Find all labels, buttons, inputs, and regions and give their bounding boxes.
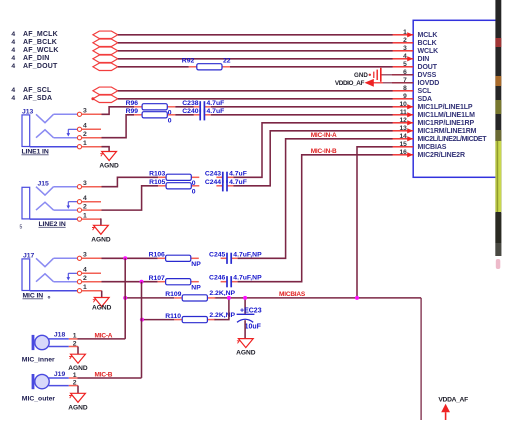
off-page connector AF_MCLK [11, 31, 117, 38]
ground GND at DVSS pin 6 [354, 68, 413, 82]
svg-text:J15: J15 [38, 181, 50, 188]
svg-text:10uF: 10uF [245, 324, 262, 331]
pin 5 DOUT [392, 61, 438, 71]
pin 1 of J15 [77, 213, 87, 222]
wire J17 pin 2 to R107 [82, 281, 102, 283]
wire net MIC-A vertical [124, 258, 126, 339]
svg-text:AF_SCL: AF_SCL [23, 87, 52, 94]
off-page connector AF_DIN [11, 55, 117, 62]
svg-text:MIC1LP/LINE1LP: MIC1LP/LINE1LP [418, 104, 473, 111]
svg-text:J17: J17 [23, 252, 35, 259]
svg-text:C244: C244 [205, 179, 221, 186]
capacitor C244 [205, 179, 247, 192]
pin 3 of J15 [77, 180, 87, 189]
pin 2 of J17 [77, 275, 87, 284]
power VDDA_AF [438, 397, 468, 420]
svg-text:R110: R110 [165, 313, 181, 320]
resistor R103 [149, 171, 199, 188]
svg-text:IOVDD: IOVDD [418, 80, 440, 87]
svg-text:MIC2R/LINE2R: MIC2R/LINE2R [418, 152, 465, 159]
svg-text:DOUT: DOUT [418, 64, 438, 71]
svg-text:NP: NP [191, 261, 201, 268]
svg-text:MIC1RM/LINE1RM: MIC1RM/LINE1RM [418, 128, 477, 135]
wire C243 to pin 12 [233, 123, 392, 178]
svg-text:AGND: AGND [68, 365, 88, 372]
svg-text:BCLK: BCLK [418, 40, 437, 47]
ground AGND of J15 [91, 225, 111, 243]
junction dot at AF_SDA connector [91, 97, 94, 100]
pin 7 IOVDD [392, 77, 439, 87]
svg-text:AGND: AGND [68, 404, 88, 411]
svg-text:DVSS: DVSS [418, 72, 437, 79]
ground AGND of EC23 [236, 339, 256, 357]
svg-text:MIC-IN-A: MIC-IN-A [311, 132, 337, 139]
pin 13 MIC1RM/LINE1RM [392, 125, 477, 135]
pin 4 DIN [392, 53, 429, 63]
wire net MIC-B vertical [141, 282, 143, 378]
resistor R105 [149, 179, 199, 196]
wire C244 to pin 13 [233, 131, 392, 186]
junction at J17 pin 3 and MIC-A [123, 256, 127, 260]
connector J13 LINE1 IN jack [22, 108, 77, 146]
ground AGND of J18 [68, 354, 88, 372]
svg-text:GND: GND [354, 72, 368, 79]
off-page connector AF_SCL [11, 87, 117, 94]
wire R99 to C240 [175, 114, 194, 116]
wire J19 pin 2 to ground [69, 385, 78, 387]
pin 4 of J13 [77, 123, 101, 132]
pin 16 MIC2R/LINE2R [392, 149, 465, 159]
pin 2 of J13 [77, 131, 87, 140]
svg-text:AGND: AGND [91, 236, 111, 243]
wire C246 to pin 16 net MIC-IN-B [238, 155, 393, 282]
svg-text:4.7uF: 4.7uF [229, 170, 247, 177]
pin 2 of J15 [77, 204, 87, 213]
junction at J17 pin 2 and MIC-B [140, 280, 144, 284]
op-amp U1 codec block [413, 20, 497, 177]
svg-text:J18: J18 [54, 332, 66, 339]
svg-text:4: 4 [11, 31, 15, 38]
svg-text:MIC-IN-B: MIC-IN-B [311, 148, 337, 155]
svg-text:2.2K,NP: 2.2K,NP [209, 312, 235, 319]
junction MIC-A at R109 [123, 296, 127, 300]
resistor R99 [126, 108, 176, 125]
pin 3 WCLK [392, 45, 438, 55]
svg-text:R105: R105 [149, 179, 165, 186]
wire J15 pin 3 to R103 [82, 186, 102, 188]
wire R92 to pin 5 [230, 66, 393, 68]
svg-text:LINE1 IN: LINE1 IN [22, 149, 49, 156]
svg-text:MCLK: MCLK [418, 32, 438, 39]
svg-text:4.7uF: 4.7uF [207, 108, 225, 115]
capacitor C238 [182, 100, 224, 113]
power VDDIO_AF at IOVDD pin 7 [335, 79, 413, 87]
wire R110 to MICBIAS [214, 298, 229, 320]
svg-text:J13: J13 [22, 108, 34, 115]
pin 6 DVSS [392, 69, 437, 79]
svg-text:C240: C240 [182, 108, 198, 115]
pin 3 of J17 [77, 252, 87, 261]
junction R110 bridge at MICBIAS [227, 296, 231, 300]
wire AF_MCLK to pin 1 [118, 34, 393, 36]
svg-text:AF_WCLK: AF_WCLK [23, 47, 59, 54]
junction MICBIAS at pin15 drop [355, 296, 359, 300]
svg-text:4.7uF,NP: 4.7uF,NP [233, 251, 262, 258]
svg-text:4.7uF,NP: 4.7uF,NP [233, 275, 262, 282]
svg-text:22: 22 [223, 58, 231, 65]
svg-text:VDDA_AF: VDDA_AF [438, 397, 468, 404]
svg-text:MIC_inner: MIC_inner [22, 357, 55, 364]
resistor R109 [165, 290, 235, 301]
svg-text:4: 4 [11, 47, 15, 54]
svg-text:AF_BCLK: AF_BCLK [23, 39, 57, 46]
resistor R110 [165, 312, 235, 323]
pin 15 MICBIAS [392, 141, 447, 151]
svg-text:WCLK: WCLK [418, 48, 439, 55]
pin 11 MIC1LM/LINE1LM [392, 109, 475, 119]
svg-text:R107: R107 [149, 275, 165, 282]
wire J13 pin 2 to R99 [82, 137, 102, 139]
svg-text:+EC23: +EC23 [240, 308, 262, 315]
capacitor C243 [205, 170, 247, 183]
svg-text:R99: R99 [126, 108, 139, 115]
capacitor C245 [209, 251, 262, 264]
wire J18 pin 2 to ground [69, 346, 78, 348]
resistor R106 [149, 252, 202, 269]
svg-text:AF_MCLK: AF_MCLK [23, 31, 58, 38]
connector J15 LINE2 IN jack [22, 181, 77, 219]
off-page connector AF_SDA [11, 95, 117, 102]
svg-text:MIC_outer: MIC_outer [22, 396, 56, 403]
svg-text:J19: J19 [54, 371, 66, 378]
svg-text:4: 4 [11, 55, 15, 62]
svg-text:4: 4 [11, 39, 15, 46]
off-page connector AF_BCLK [11, 39, 117, 46]
svg-text:4.7uF: 4.7uF [207, 100, 225, 107]
wire AF_SCL to pin 8 [118, 90, 393, 92]
svg-text:5: 5 [20, 225, 23, 231]
svg-text:VDDIO_AF: VDDIO_AF [335, 80, 365, 87]
connector J17 MIC IN jack [22, 252, 77, 290]
wire MIC-B [69, 377, 78, 379]
wire MIC-A [69, 338, 78, 340]
svg-text:C246: C246 [209, 275, 225, 282]
wire J13 pin 1 to ground [82, 146, 102, 148]
pin 9 SDA [392, 93, 432, 103]
junction MIC-B at R110 [140, 318, 144, 322]
svg-text:R92: R92 [182, 58, 195, 65]
wire C240 to pin 11 [211, 114, 393, 116]
screenshot artifact bar [495, 0, 501, 269]
connector J19 MIC_outer microphone [22, 371, 77, 403]
svg-text:R103: R103 [149, 171, 165, 178]
svg-text:AGND: AGND [92, 305, 112, 312]
resistor R96 [126, 100, 176, 117]
off-page connector AF_DOUT [11, 63, 117, 70]
svg-text:AGND: AGND [236, 350, 256, 357]
wire J17 pin 1 to ground [82, 290, 102, 292]
svg-text:R96: R96 [126, 100, 139, 107]
svg-text:2.2K,NP: 2.2K,NP [209, 290, 235, 297]
svg-text:AGND: AGND [99, 163, 119, 170]
svg-text:LINE2 IN: LINE2 IN [39, 221, 66, 228]
capacitor EC23 10uF [237, 296, 262, 339]
pin 1 of J17 [77, 284, 87, 293]
svg-text:4: 4 [11, 63, 15, 70]
pin 8 SCL [392, 85, 432, 95]
svg-text:C238: C238 [182, 100, 198, 107]
wire AF_SDA to pin 9 [118, 98, 393, 100]
pin 4 of J17 [77, 267, 101, 276]
wire AF_DOUT to R92 [118, 66, 189, 68]
wire MICBIAS row [125, 297, 174, 299]
pin 3 of J13 [77, 108, 87, 117]
capacitor C240 [182, 108, 224, 121]
svg-text:AF_DOUT: AF_DOUT [23, 63, 58, 70]
svg-text:MIC1LM/LINE1LM: MIC1LM/LINE1LM [418, 112, 476, 119]
pin 1 MCLK [392, 29, 437, 39]
connector J18 MIC_inner microphone [22, 332, 77, 364]
svg-text:NP: NP [191, 284, 201, 291]
svg-text:C243: C243 [205, 170, 221, 177]
wire R110 row [142, 319, 174, 321]
svg-text:MIC1RP/LINE1RP: MIC1RP/LINE1RP [418, 120, 475, 127]
svg-text:4: 4 [11, 87, 15, 94]
svg-text:0: 0 [192, 189, 196, 196]
svg-text:C245: C245 [209, 251, 225, 258]
resistor R107 [149, 275, 202, 292]
pin 2 BCLK [392, 37, 437, 47]
wire J13 pin 3 to R96 [82, 113, 102, 115]
wire J15 pin 2 to R105 [82, 209, 102, 211]
ground AGND of J19 [68, 393, 88, 411]
pin 4 of J15 [77, 195, 101, 204]
ground AGND of J13 [99, 152, 119, 170]
svg-text:R109: R109 [165, 291, 181, 298]
wire C245 to pin 14 net MIC-IN-A [238, 139, 393, 258]
off-page connector AF_WCLK [11, 47, 117, 54]
svg-text:0: 0 [168, 118, 172, 125]
wire R96 to C238 [175, 106, 194, 108]
svg-text:R106: R106 [149, 252, 165, 259]
ground AGND of J17 [92, 298, 112, 312]
wire J15 pin 1 to ground [82, 218, 102, 220]
svg-text:4: 4 [11, 95, 15, 102]
capacitor C246 [209, 275, 262, 288]
svg-text:AF_SDA: AF_SDA [23, 95, 52, 102]
resistor R92 [182, 58, 231, 70]
pin 1 of J13 [77, 140, 87, 149]
svg-text:o: o [48, 295, 51, 300]
wire AF_DIN to pin 4 [118, 58, 393, 60]
svg-text:MICBIAS: MICBIAS [418, 144, 447, 151]
wire C238 to pin 10 [211, 106, 393, 108]
wire J17 pin 3 to R106 [82, 257, 102, 259]
pin 14 MIC2L/LINE2L/MICDET [392, 133, 487, 143]
wire MICBIAS down right side [420, 298, 422, 420]
pin 10 MIC1LP/LINE1LP [392, 101, 473, 111]
wire AF_BCLK to pin 2 [118, 42, 393, 44]
svg-text:MICBIAS: MICBIAS [279, 291, 306, 298]
svg-text:DIN: DIN [418, 56, 430, 63]
svg-text:MIC IN: MIC IN [23, 293, 44, 300]
wire pin 15 to MICBIAS [357, 147, 393, 298]
svg-text:SDA: SDA [418, 96, 433, 103]
svg-text:4.7uF: 4.7uF [229, 179, 247, 186]
svg-text:MIC2L/LINE2L/MICDET: MIC2L/LINE2L/MICDET [418, 136, 488, 143]
svg-text:SCL: SCL [418, 88, 433, 95]
svg-text:AF_DIN: AF_DIN [23, 55, 49, 62]
wire AF_WCLK to pin 3 [118, 50, 393, 52]
pin 12 MIC1RP/LINE1RP [392, 117, 474, 127]
